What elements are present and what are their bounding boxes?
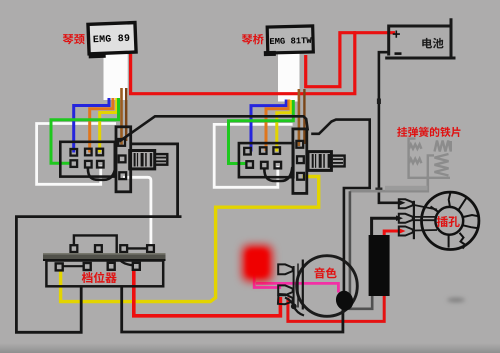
wire red neck pickup to battery <box>131 33 395 94</box>
wire black capacitor to jack <box>372 218 397 235</box>
tone pot circle <box>297 256 358 317</box>
wire orange neck <box>90 98 113 153</box>
tone pot ground dot and curve <box>291 303 297 309</box>
wire black neck frame to selector <box>16 217 181 333</box>
label bridge <box>242 34 264 45</box>
wire yellow neck <box>100 98 117 153</box>
wire orange bridge <box>266 100 289 152</box>
red blurred highlight blob <box>243 246 273 282</box>
pot V2 bridge switch box <box>239 143 293 177</box>
wire brown neck pair <box>120 88 123 145</box>
selector bridge wire <box>74 235 117 257</box>
pot V2 shaft <box>331 156 344 167</box>
smudge <box>447 298 465 302</box>
wire black battery minus to jack <box>379 52 400 203</box>
wire red tone pot to capacitor <box>288 296 384 322</box>
selector top lugs <box>71 245 78 252</box>
wire black neck pot frame <box>131 144 178 217</box>
tone pot shaft ellipse <box>333 288 355 312</box>
pickup EMG 89 neck <box>87 23 136 59</box>
wire black ground bus between pots <box>119 116 308 141</box>
pickup EMG 81TW bridge <box>263 26 313 56</box>
svg-text:EMG 89: EMG 89 <box>93 33 131 45</box>
wire yellow bridge <box>277 100 291 152</box>
label battery <box>422 38 443 48</box>
battery box <box>385 18 455 58</box>
neck pickup ribbon cable <box>104 52 128 100</box>
label tone <box>314 267 336 278</box>
jack inner ring <box>435 207 463 235</box>
jack outer ring <box>422 192 479 249</box>
jack lugs <box>413 201 415 239</box>
wire red capacitor to jack <box>384 231 400 236</box>
pot V2 body <box>308 152 331 171</box>
wire pink blob to lug <box>254 274 280 288</box>
pot V1 body <box>130 151 155 169</box>
pot V2 terminal strip <box>293 129 307 194</box>
label jack <box>437 216 460 227</box>
selector body <box>46 261 163 287</box>
selector mounting bar <box>43 253 166 259</box>
wire yellow bridge-pot to selector <box>61 177 319 302</box>
wire pink to tone shaft <box>256 283 338 292</box>
wire green neck <box>51 98 119 163</box>
label neck <box>63 34 85 44</box>
tone pot lugs <box>278 264 293 274</box>
wire blue bridge <box>251 100 286 152</box>
wire brown bridge pair <box>298 89 301 146</box>
wire white shield left loop <box>37 124 116 185</box>
bridge pickup ribbon cable <box>278 52 300 102</box>
pot V2 lug jumper curve <box>264 167 292 181</box>
wire black bridge pot casing to tone shaft <box>311 120 370 307</box>
wire red bridge pickup <box>306 33 356 87</box>
pot V1 lug jumper curve <box>88 166 116 180</box>
label spring claw <box>397 127 460 137</box>
gray wire spring claw to tone shaft <box>350 176 428 191</box>
tone pot casing lines <box>293 266 295 306</box>
wire white neck-pot to selector <box>123 177 151 246</box>
wire white shield right loop <box>214 124 292 187</box>
capacitor black box <box>369 235 390 296</box>
wire blue neck <box>74 98 109 153</box>
pot V1 shaft <box>155 154 168 165</box>
wire red selector to tone pot <box>134 270 281 316</box>
pot V1 neck switch box <box>60 142 115 177</box>
svg-text:EMG 81TW: EMG 81TW <box>269 36 312 47</box>
jack spokes <box>431 192 479 248</box>
wire green bridge <box>229 100 294 164</box>
wire black selector to tone shaft <box>122 287 343 333</box>
pot V1 terminal strip <box>116 127 131 192</box>
label selector <box>82 272 117 283</box>
spring claw plate <box>409 139 451 178</box>
